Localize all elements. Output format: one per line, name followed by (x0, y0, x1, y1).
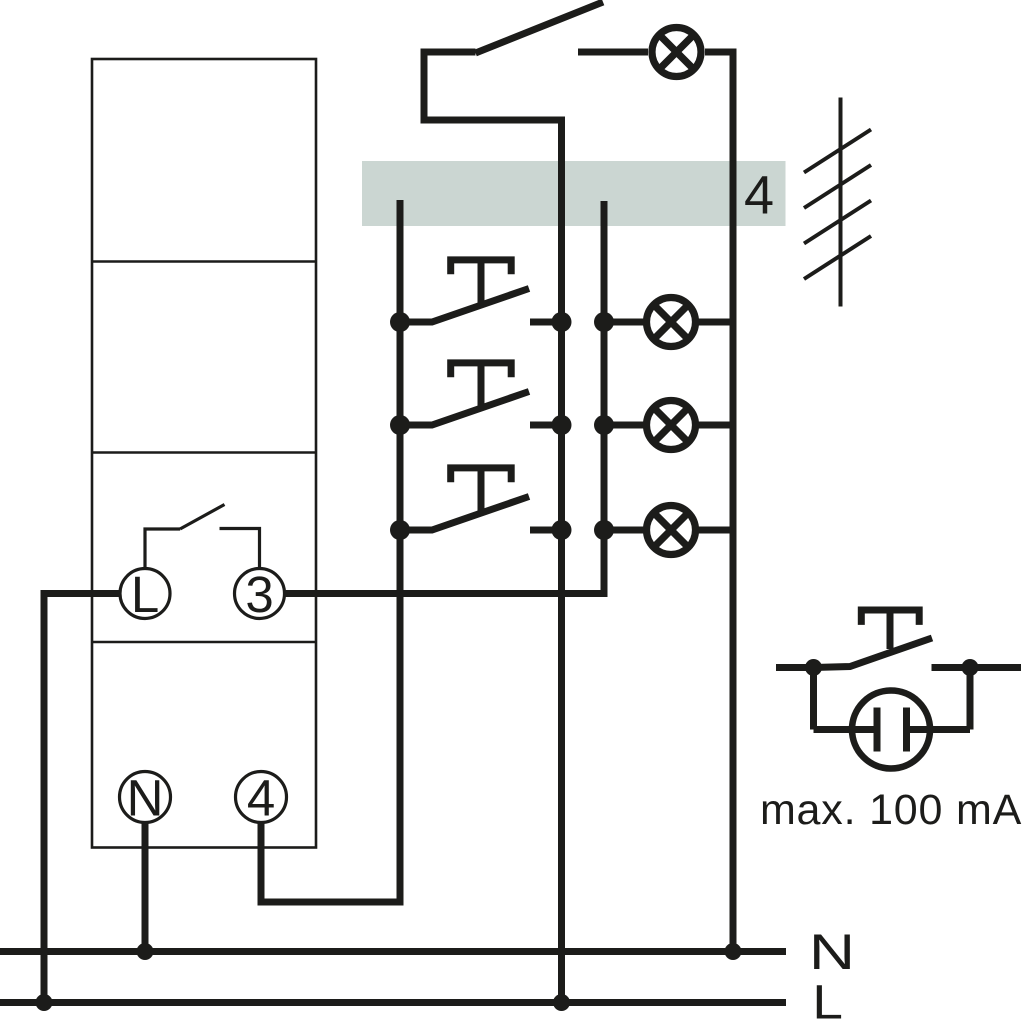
svg-text:L: L (812, 975, 843, 1021)
wire: lamp E2 row (604, 319, 733, 326)
switch S1 blade (476, 2, 604, 53)
wire: 4 terminal to pushbutton bus (261, 200, 400, 902)
lamp E4 (647, 506, 696, 555)
4-core cable symbol (804, 98, 871, 307)
lamp E1 (652, 28, 701, 77)
cable highlight band (362, 161, 786, 226)
wire: L feed from left riser (44, 594, 120, 1003)
svg-text:L: L (131, 566, 159, 623)
lamp E3 (647, 401, 696, 450)
junction: bus/S3 (390, 415, 410, 435)
svg-text:max. 100 mA: max. 100 mA (760, 786, 1022, 834)
svg-text:3: 3 (245, 566, 273, 623)
junction: L rail / switch riser (553, 994, 570, 1011)
terminal 3 (235, 569, 285, 619)
junction: N rail / lamp return (725, 943, 742, 960)
junction: S4 output (552, 520, 572, 540)
lamp E2 (647, 298, 696, 347)
wire: top switch feed (424, 52, 562, 1003)
junction: N rail / N terminal (137, 943, 154, 960)
internal timer contact between L and 3 (145, 505, 260, 569)
junction: S5 right (962, 659, 979, 676)
terminal 4 (236, 772, 287, 823)
wire: L rail (0, 999, 786, 1006)
box divider 1 (92, 260, 316, 263)
junction: S2 output (552, 312, 572, 332)
pushbutton S4 (row 3) (400, 468, 562, 530)
junction: S5 left (805, 659, 822, 676)
wire: switch to lamp E1 (578, 49, 648, 56)
junction: S3 output (552, 415, 572, 435)
terminal N (120, 772, 171, 823)
pushbutton S3 (row 2) (400, 363, 562, 425)
wire: 3 to lamp bus riser (285, 201, 605, 594)
device box (92, 59, 316, 848)
glow lamp in S5 (852, 691, 930, 769)
wire: N terminal drop (142, 823, 149, 952)
svg-text:N: N (809, 925, 855, 981)
svg-text:4: 4 (247, 770, 275, 827)
svg-text:4: 4 (744, 166, 774, 226)
wire: lamp E1 to right return (705, 52, 733, 952)
junction: lamp bus row 2 (594, 415, 614, 435)
box divider 2 (92, 451, 316, 454)
wire: lamp E3 row (604, 422, 733, 429)
wire: N rail (0, 948, 786, 955)
junction: bus/S4 (390, 520, 410, 540)
illuminated pushbutton S5 legend (776, 610, 1021, 730)
box divider 3 (92, 641, 316, 644)
junction: lamp bus row 1 (594, 312, 614, 332)
pushbutton S2 (row 1) (400, 260, 562, 322)
junction: lamp bus row 3 (594, 520, 614, 540)
wire: lamp E4 row (604, 527, 733, 534)
svg-text:N: N (127, 770, 164, 827)
junction: L rail / left riser (36, 994, 53, 1011)
junction: bus/S2 (390, 312, 410, 332)
terminal L (120, 569, 170, 619)
